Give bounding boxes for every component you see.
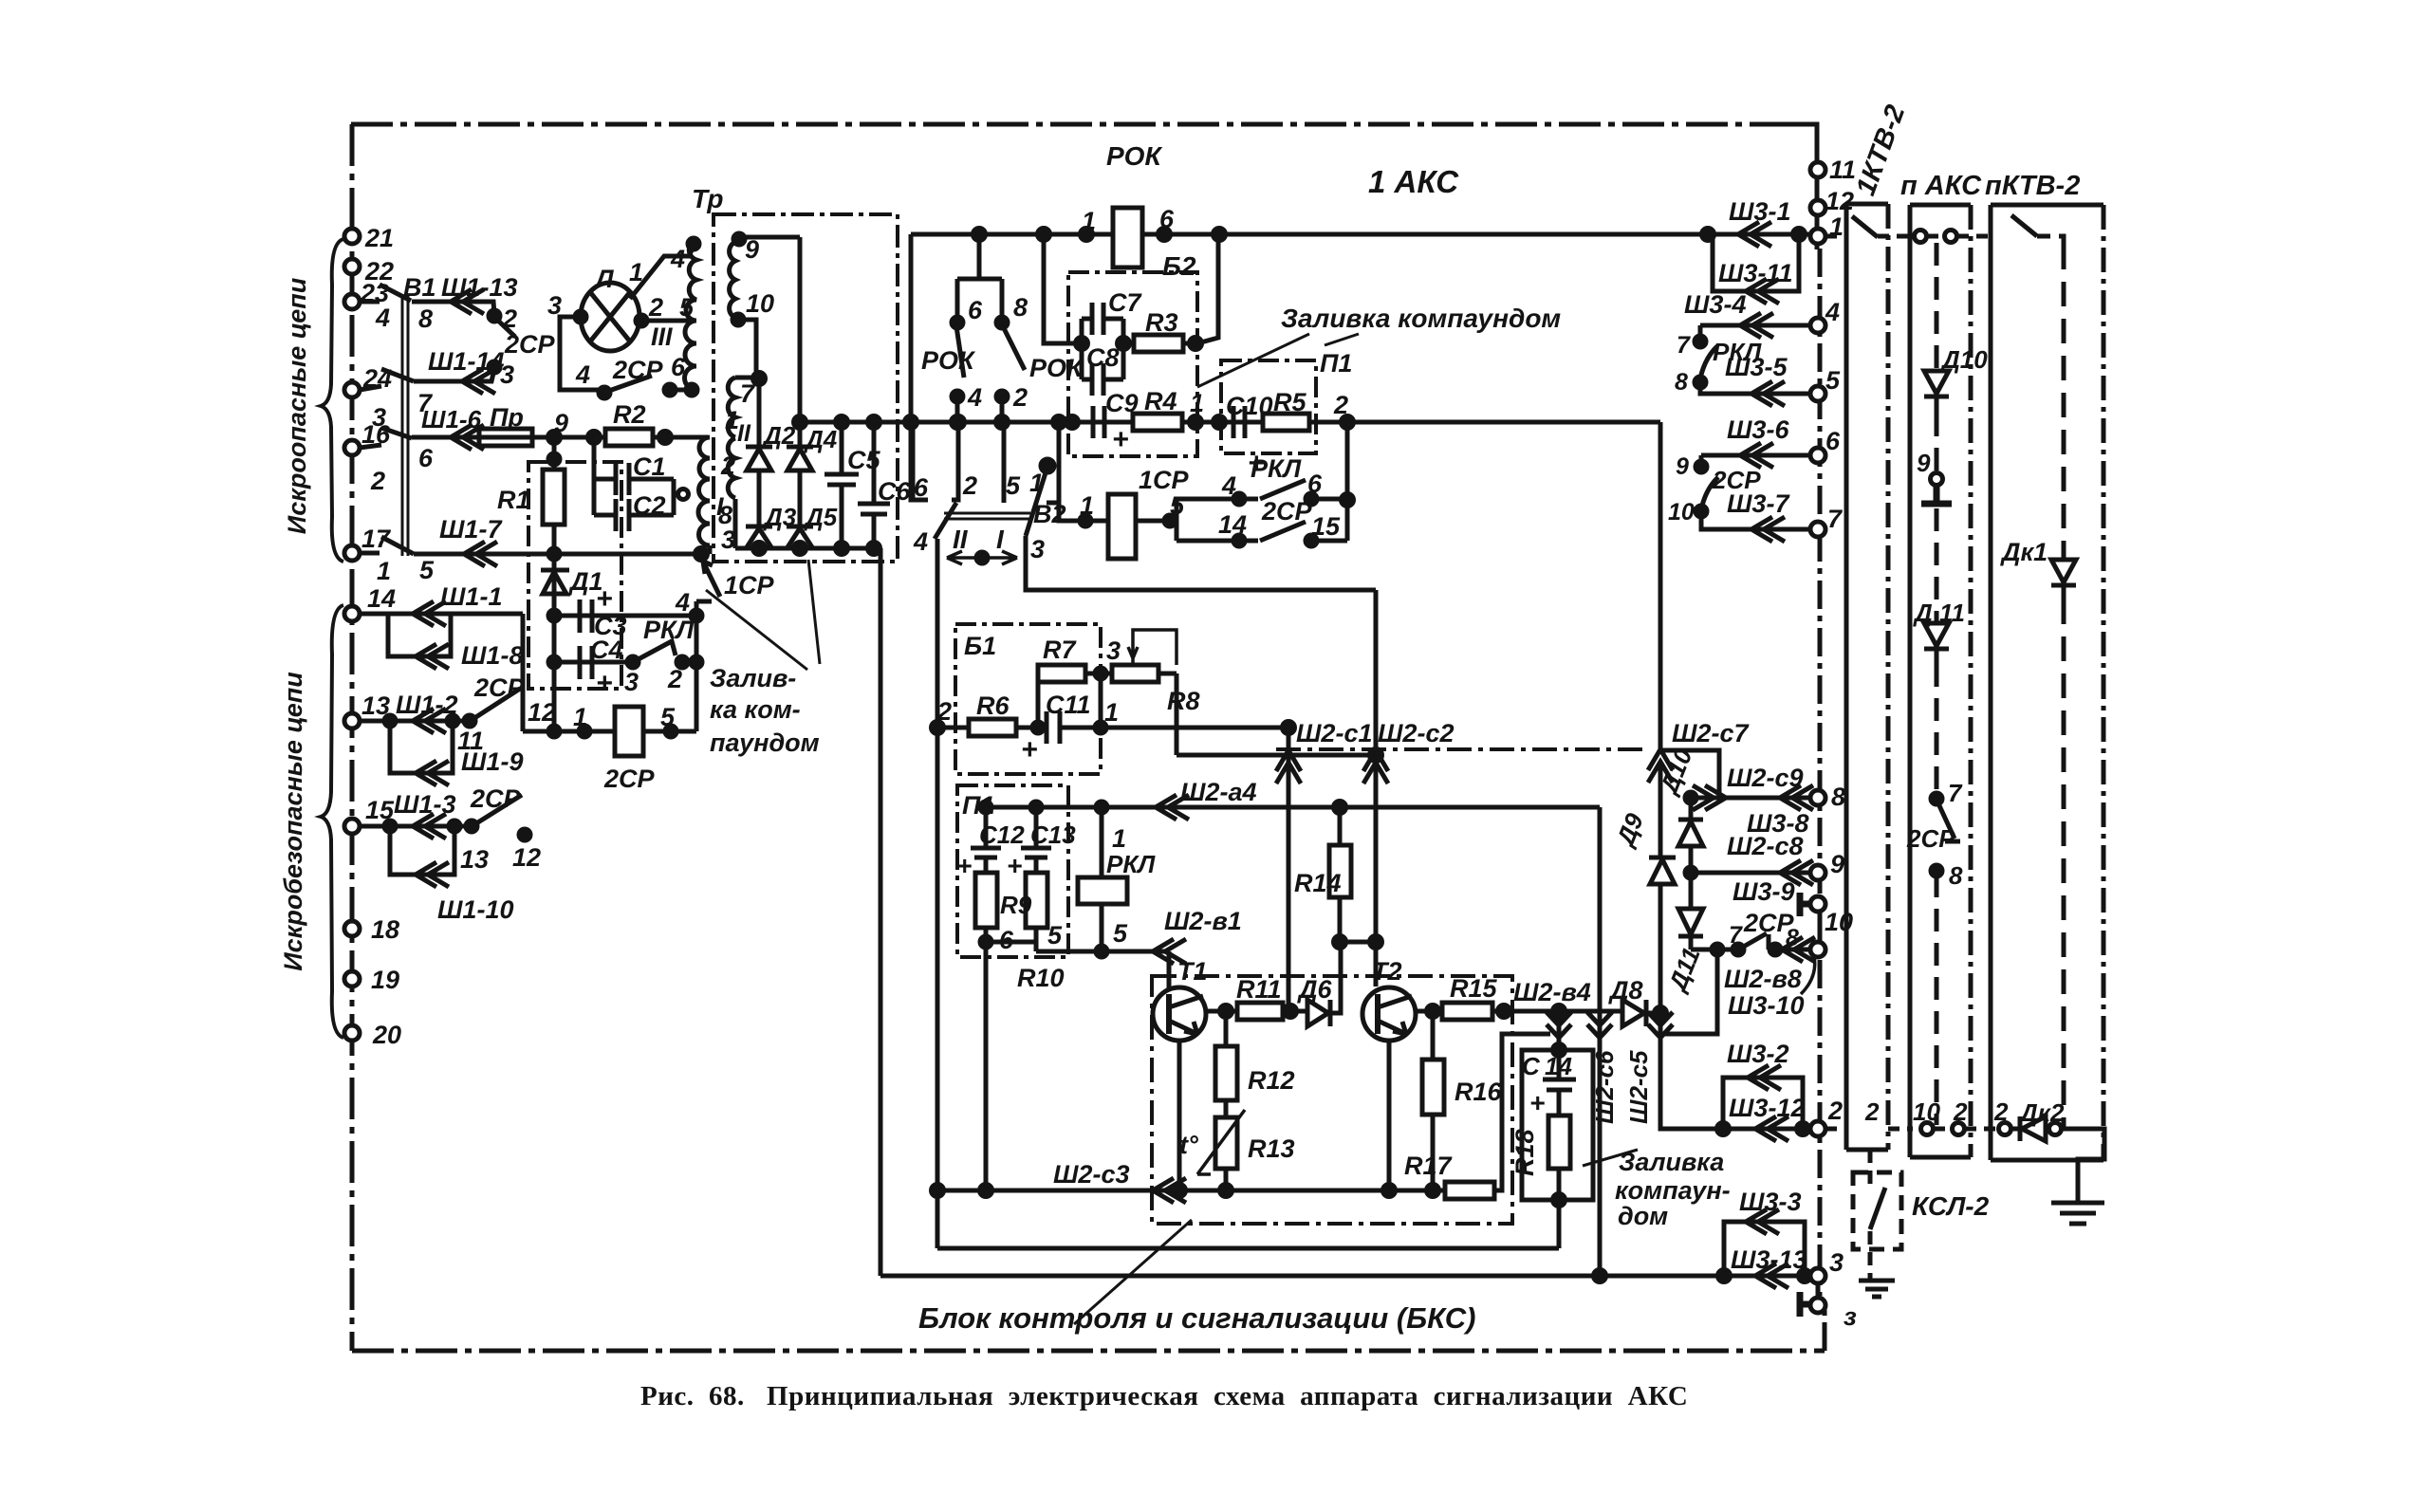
terminal 19: [344, 971, 360, 986]
relay 2СР coil: [615, 707, 643, 756]
svg-text:компаун-: компаун-: [1615, 1176, 1731, 1205]
node 9: [548, 432, 561, 444]
lamp Л circle: [581, 283, 639, 351]
contact РОК-2 upper: [1000, 279, 1005, 323]
wire пАКС contact: [1927, 234, 1992, 239]
node relay pin1: [579, 726, 590, 737]
T1 emitter down: [1177, 1041, 1182, 1190]
svg-text:С10: С10: [1226, 392, 1273, 420]
svg-text:Д8: Д8: [1608, 976, 1643, 1005]
terminal 10: [1810, 942, 1825, 957]
capacitor C7: [1082, 303, 1123, 335]
loop Ш1-10: [390, 826, 454, 875]
svg-text:II: II: [737, 420, 751, 447]
пАКС bottom edge: [1910, 1155, 1971, 1160]
svg-text:Дк1: Дк1: [2000, 538, 2048, 566]
wire R14 to x1450: [1340, 940, 1376, 945]
node T1 emitter bottom: [1174, 1185, 1186, 1197]
wire terminal 23 stub: [360, 300, 380, 304]
svg-text:2: 2: [936, 697, 952, 726]
R12 leads: [1224, 1011, 1229, 1117]
svg-text:Ш2-с3: Ш2-с3: [1053, 1160, 1129, 1189]
arrow Ш3-3: [1746, 1209, 1779, 1234]
wire R15 to Д8: [1492, 1009, 1622, 1014]
svg-text:Ш2-с8: Ш2-с8: [1727, 832, 1803, 860]
node 2СР 15: [1306, 535, 1317, 546]
wire Ш3-7 row: [1701, 511, 1810, 529]
node РКЛ relay top: [1096, 802, 1107, 813]
svg-text:6: 6: [968, 296, 983, 324]
node pin9: [733, 233, 745, 245]
arrow Ш3-13: [1755, 1263, 1788, 1288]
diode Дк2: [2011, 1116, 2048, 1141]
wire node3 to node1: [1099, 673, 1103, 728]
svg-text:С4: С4: [590, 636, 623, 664]
пКТВ-2 terminal circle 2: [1999, 1123, 2011, 1135]
node x1450 R14 row: [1370, 936, 1382, 949]
resistor R13 thermistor: [1215, 1117, 1237, 1169]
contact 2СР blade pair3: [473, 795, 522, 825]
svg-text:R12: R12: [1248, 1066, 1295, 1095]
ground symbol КСЛ-2: [1859, 1281, 1895, 1297]
svg-text:7: 7: [1677, 332, 1691, 359]
arrow Ш3-5: [1751, 381, 1785, 406]
node pin6 dots: [664, 384, 676, 396]
capacitor C8: [1082, 363, 1123, 396]
svg-text:Ш3-5: Ш3-5: [1725, 353, 1788, 381]
terminal 18: [344, 921, 360, 936]
node bus РОК left: [1081, 229, 1093, 241]
svg-text:Ш1-13: Ш1-13: [441, 273, 517, 302]
terminal 13: [344, 713, 360, 728]
R13 strike line: [1197, 1110, 1245, 1174]
wire R7 left leg: [1036, 682, 1041, 728]
wire 2СР row (Ш2-в8): [1691, 934, 1812, 950]
node C7C8 left: [1076, 338, 1088, 350]
node 2CP-3: [489, 361, 500, 373]
wire Ш1-3 top: [360, 824, 472, 829]
svg-text:13: 13: [460, 845, 489, 874]
capacitor C3: [580, 599, 592, 633]
resistor R15: [1442, 1003, 1492, 1020]
wire Ш3-4 row: [1700, 323, 1810, 328]
wire R2 to winding I pin1: [653, 435, 708, 440]
svg-text:8: 8: [418, 304, 433, 333]
Ш3-3 box: [1724, 1222, 1805, 1276]
node R14 top: [1334, 802, 1346, 814]
relay 1СР coil: [1108, 494, 1136, 559]
node Ш3-2 right: [1797, 1123, 1809, 1135]
1КТВ-2 bottom edge: [1846, 1148, 1888, 1152]
contact 2СР blade (col): [1701, 477, 1718, 509]
resistor R6: [969, 719, 1016, 736]
svg-text:14: 14: [367, 584, 396, 613]
svg-text:РКЛ: РКЛ: [1106, 850, 1156, 878]
svg-text:+: +: [1021, 734, 1038, 765]
diode Д4: [787, 447, 813, 470]
terminal 17: [344, 545, 360, 561]
1КТВ-2 column left edge: [1844, 204, 1849, 1150]
arrow Ш1-7: [464, 542, 497, 566]
winding III coil: [684, 240, 696, 390]
node 3 Б1: [1095, 668, 1106, 679]
svg-text:5: 5: [419, 556, 435, 584]
svg-text:П1: П1: [962, 791, 994, 820]
svg-text:В1: В1: [403, 273, 436, 302]
wire node C4 row: [554, 660, 633, 665]
node Д10 top: [1685, 792, 1696, 803]
node Д8 x1750: [1655, 1007, 1667, 1020]
arrow Ш2-с7 (up): [1648, 749, 1673, 783]
svg-text:2СР: 2СР: [473, 673, 526, 702]
terminal 23: [344, 294, 360, 309]
node 2СР-7 (пАКС): [1931, 793, 1942, 804]
wire pair1 right rail: [521, 614, 526, 731]
node x1450 R8: [1370, 749, 1382, 762]
node 2СР-7: [1733, 944, 1744, 955]
пКТВ-2 column left edge: [1989, 205, 1993, 1160]
svg-text:9: 9: [1676, 453, 1689, 480]
arrow Ш2-с3: [1153, 1178, 1186, 1203]
vertical x1643 C14: [1557, 1011, 1562, 1050]
outer boundary right corner riser: [1820, 1305, 1825, 1351]
R18 leads: [1557, 1090, 1562, 1248]
winding III pin4 wire: [690, 240, 696, 254]
svg-text:5: 5: [1170, 491, 1185, 520]
пАКС dashed wire 3: [1935, 508, 1939, 621]
node 2СР-8 (пАКС): [1931, 865, 1942, 876]
node 2СР 14: [1233, 535, 1245, 546]
terminal 16: [344, 440, 360, 455]
resistor R1: [543, 470, 565, 525]
T1 base bar: [1166, 994, 1172, 1034]
wire Д8 to x1750: [1646, 1011, 1660, 1016]
switch В2 II right leg: [952, 422, 958, 500]
arrow Ш2-с9 right (»): [1693, 785, 1726, 810]
T2 emitter down: [1387, 1041, 1392, 1190]
node Д4 rail mid: [794, 416, 806, 429]
КСЛ-2 dashed box: [1853, 1172, 1901, 1249]
R8 wiper arm: [1128, 630, 1177, 665]
svg-text:Ш2-с5: Ш2-с5: [1624, 1050, 1653, 1124]
svg-text:2СР: 2СР: [612, 356, 664, 384]
svg-text:Б2: Б2: [1162, 251, 1196, 281]
arrow Ш3-1: [1738, 222, 1771, 247]
arrow Ш3-2: [1748, 1065, 1781, 1090]
vertical x1750 lower: [1660, 1013, 1723, 1129]
svg-text:R13: R13: [1248, 1134, 1295, 1163]
contact РКЛ row: [1177, 497, 1347, 502]
node rail C4 row: [691, 656, 702, 668]
svg-text:14: 14: [1218, 510, 1247, 539]
node y445 РОК1: [952, 416, 964, 429]
1КТВ-2 top edge: [1846, 202, 1888, 207]
wire РКЛ fixed to rail: [682, 660, 696, 665]
node 1СР right: [1164, 515, 1176, 526]
БКС box dash-dot: [1152, 976, 1512, 1224]
contact РОК-2 lower: [1000, 396, 1005, 422]
T1 collector wire: [1206, 1009, 1237, 1014]
terminal 8: [1810, 790, 1825, 805]
svg-text:2: 2: [1864, 1097, 1880, 1126]
node РКЛ 6: [1306, 493, 1317, 505]
svg-text:2СР: 2СР: [603, 765, 656, 793]
svg-text:2: 2: [1012, 383, 1028, 412]
svg-text:Ш3-12: Ш3-12: [1729, 1094, 1805, 1122]
wire R17 right riser: [1494, 1034, 1550, 1190]
winding I pin3 wire: [708, 545, 713, 554]
T2 base bar: [1375, 994, 1381, 1034]
compound box around R1 Д1 С3 С4: [528, 462, 621, 689]
node y445 РОК2/В2: [996, 416, 1009, 429]
terminal 21: [344, 229, 360, 244]
svg-text:12: 12: [528, 698, 556, 727]
Б2 box dash-dot: [1068, 272, 1197, 456]
svg-text:Пр: Пр: [490, 403, 524, 432]
пАКС dashed wire 5: [1935, 875, 1939, 1125]
svg-text:Д2: Д2: [762, 421, 796, 450]
arrow Ш2-а4: [1156, 795, 1189, 820]
svg-text:2: 2: [1993, 1097, 2009, 1126]
node 2 П1: [1342, 416, 1354, 429]
svg-text:9: 9: [745, 235, 759, 264]
node relay pin5: [665, 726, 676, 737]
svg-text:Д6: Д6: [1297, 975, 1332, 1004]
svg-text:С7: С7: [1108, 288, 1142, 317]
svg-text:15: 15: [1311, 512, 1341, 541]
svg-text:з: з: [1844, 1302, 1857, 1331]
svg-text:3: 3: [547, 291, 562, 320]
пАКС terminal circles bottom: [1921, 1123, 1934, 1135]
wire Ш2-с3 bottom row: [937, 1189, 1445, 1193]
node 7 (РКЛ right): [1695, 336, 1706, 347]
node Ш2-с6 x1643: [1553, 1005, 1566, 1018]
node bus РОК right: [1158, 229, 1171, 241]
wire Ш2-а4: [977, 805, 1600, 810]
пКТВ-2 wire top: [2037, 236, 2064, 245]
svg-text:КСЛ-2: КСЛ-2: [1912, 1191, 1990, 1221]
svg-text:Дк2: Дк2: [2018, 1098, 2065, 1127]
svg-text:Тр: Тр: [692, 184, 724, 213]
svg-text:2: 2: [502, 304, 517, 333]
wire R3 right: [1183, 341, 1197, 346]
node R1 top: [548, 453, 560, 465]
Ш3-4 drop: [1698, 325, 1703, 340]
svg-text:6: 6: [418, 444, 434, 472]
svg-text:С: С: [1522, 1052, 1541, 1080]
svg-text:Т2: Т2: [1372, 957, 1402, 986]
svg-text:R16: R16: [1455, 1078, 1503, 1106]
diode Дк1: [2051, 560, 2076, 599]
svg-text:Ш3-7: Ш3-7: [1727, 489, 1790, 518]
пАКС column right edge dash-dot: [1969, 205, 1974, 1157]
node Ш2-с1 top: [1283, 722, 1295, 734]
П1 lower box dash-dot: [957, 785, 1068, 957]
svg-text:7: 7: [1827, 505, 1844, 533]
svg-text:2: 2: [370, 467, 385, 495]
switch В2 I leg 1: [1047, 422, 1059, 503]
ground pin з bar: [1800, 1292, 1810, 1317]
svg-text:R2: R2: [613, 400, 646, 429]
wire R7 right to node3: [1085, 672, 1112, 676]
wire РОК contacts riser: [957, 234, 1002, 279]
node 9 (2СР right): [1696, 461, 1707, 472]
boundary dash-dot y790: [1276, 747, 1649, 751]
node Ш3-10 riser: [1712, 944, 1723, 955]
node РОК1-4: [952, 391, 963, 402]
ground rail x928: [879, 548, 883, 1276]
svg-text:+: +: [956, 851, 972, 880]
wire 1СР row: [1059, 503, 1177, 521]
resistor R4: [1133, 414, 1182, 431]
wire C1 branch vertical: [592, 437, 597, 515]
capacitor C1: [594, 463, 674, 495]
svg-text:12: 12: [512, 843, 541, 872]
arrow Ш1-8: [416, 644, 449, 669]
callout Ш3-10 curve: [1801, 956, 1815, 994]
wire lamp pin1: [630, 256, 690, 299]
svg-text:Т1: Т1: [1177, 957, 1208, 986]
svg-text:R3: R3: [1145, 308, 1178, 337]
svg-text:Ш1-14: Ш1-14: [428, 347, 504, 376]
пКТВ-2 bottom edge: [1991, 1158, 2103, 1163]
svg-text:7: 7: [1729, 922, 1743, 949]
node В2-4 / Б1-2: [932, 722, 944, 734]
wire Ш3-2 row y1190: [1660, 1127, 1812, 1132]
terminal Ш3-9 pin: [1810, 896, 1825, 912]
arrow Ш3-7: [1751, 517, 1785, 542]
wire fuse to node 9: [532, 435, 605, 440]
T1 collector diag: [1169, 996, 1203, 1007]
svg-text:Д4: Д4: [804, 425, 838, 453]
svg-text:6: 6: [671, 353, 686, 381]
svg-text:1: 1: [377, 557, 391, 585]
wire x1750 upper segment: [1659, 765, 1663, 1013]
Ш3-11 box: [1713, 234, 1799, 291]
wire Ш1-7: [414, 552, 701, 557]
node y445 C9 left: [1066, 416, 1079, 429]
contact РКЛ blade: [1260, 480, 1306, 499]
svg-text:РОК: РОК: [921, 346, 976, 375]
callout line to compound box: [706, 590, 807, 670]
terminal 2: [1810, 1121, 1825, 1136]
terminal 6: [1810, 448, 1825, 463]
node lamp pin3: [575, 311, 586, 323]
svg-text:R17: R17: [1404, 1152, 1454, 1180]
svg-text:1: 1: [629, 258, 643, 286]
wire pin8 to bus: [733, 499, 738, 548]
wire node C3 row: [554, 614, 696, 618]
diode Д8: [1622, 1000, 1646, 1026]
wire pin7: [735, 376, 759, 380]
outer boundary right edge dash-dot: [1817, 124, 1820, 1296]
П1 right rail: [1345, 422, 1350, 541]
terminal 22: [344, 259, 360, 274]
node y445 x1285: [1214, 416, 1226, 429]
svg-text:4: 4: [675, 588, 690, 617]
switch B1 blade pole 23: [380, 285, 411, 301]
wire Ш1-6: [412, 435, 479, 440]
resistor R8 potentiometer: [1112, 665, 1158, 682]
arrow Ш3-12: [1755, 1116, 1788, 1141]
svg-text:Ш3-13: Ш3-13: [1731, 1245, 1807, 1274]
switch В2 II left leg: [911, 422, 916, 500]
svg-text:8: 8: [1786, 925, 1799, 951]
node РКЛ bottom: [1096, 946, 1107, 957]
callout БКС: [1074, 1220, 1192, 1324]
пКТВ-2 switch blade: [2011, 215, 2037, 236]
svg-text:Ш3-11: Ш3-11: [1718, 259, 1792, 287]
П1 rail to Ш2-с3: [984, 942, 989, 1190]
svg-text:Ш2-в8: Ш2-в8: [1724, 965, 1802, 993]
svg-text:5: 5: [1006, 471, 1021, 500]
node Ш2-с3 П1 rail: [980, 1185, 992, 1197]
node R11 Ш2-с1: [1285, 1005, 1297, 1018]
node П1 rail РКЛ: [1342, 494, 1354, 507]
loop Ш1-8: [388, 614, 451, 656]
пКТВ-2 column right edge dash-dot: [2102, 205, 2106, 1160]
arrow Ш1-3: [413, 814, 446, 839]
transistor T2 circle: [1362, 987, 1416, 1041]
node 2CP-2: [489, 310, 500, 322]
wire П1 bottom row: [986, 940, 1036, 945]
svg-text:Ш1-8: Ш1-8: [461, 641, 523, 670]
bottom bus Тр: [735, 546, 880, 551]
Б2 left leg: [1044, 234, 1082, 343]
svg-text:8: 8: [718, 501, 732, 529]
node y445 x960: [905, 416, 917, 429]
resistor R2: [605, 429, 653, 446]
КСЛ-2 leads dashed: [1868, 1150, 1873, 1279]
node after R2: [659, 432, 672, 444]
node C4 left: [548, 656, 560, 668]
wire lamp pin2: [638, 319, 690, 323]
arrow Ш2-в8 left («): [1782, 937, 1815, 962]
wire Ш2-с9 top jog: [1660, 750, 1719, 798]
node y445 В2-1: [1053, 416, 1066, 429]
svg-text:R1: R1: [497, 486, 530, 514]
wire relay to rail: [643, 729, 696, 734]
fuse Пр: [479, 429, 532, 446]
node R3 right: [1190, 338, 1202, 350]
callout to Б2: [1197, 334, 1309, 387]
wire В2-3 down: [1026, 536, 1376, 590]
wire R6 to C11: [1016, 726, 1047, 730]
svg-text:1: 1: [573, 703, 587, 731]
svg-text:Ш3-10: Ш3-10: [1728, 991, 1804, 1020]
svg-text:5: 5: [679, 293, 695, 322]
capacitor C10: [1233, 406, 1245, 438]
svg-text:Ш1-1: Ш1-1: [440, 582, 502, 611]
svg-text:R18: R18: [1510, 1129, 1539, 1176]
winding I tap 2 contact circle: [678, 489, 689, 500]
svg-text:С2: С2: [633, 491, 666, 520]
svg-text:Д10: Д10: [1940, 345, 1988, 374]
node bus Д3: [753, 543, 766, 555]
node R14 bottom: [1334, 936, 1346, 949]
РОК relay coil: [1113, 208, 1142, 267]
terminal 15: [344, 819, 360, 834]
node lamp pin2: [636, 315, 647, 326]
outer boundary bottom dash-dot: [352, 1349, 1825, 1354]
main bus y247: [911, 232, 1822, 237]
wire Ш2-с8: [1691, 871, 1812, 876]
capacitor C13: [1021, 807, 1051, 857]
arrow Ш2-с5 down: [1648, 1012, 1673, 1038]
node C3 right: [691, 610, 702, 621]
node C6 top: [868, 416, 880, 429]
node bus x1100: [1038, 229, 1050, 241]
